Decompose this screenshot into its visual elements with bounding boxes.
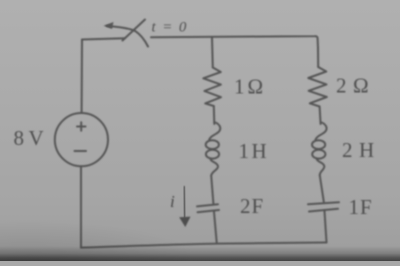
switch SW: arrow head xyxy=(104,22,114,29)
switch SW: curved motion arrow shaft xyxy=(107,26,148,47)
current arrow i: shaft xyxy=(183,186,186,218)
capacitor C2 (1 F): top plate xyxy=(308,202,339,204)
svg-text:1: 1 xyxy=(349,195,360,219)
svg-text:2: 2 xyxy=(336,74,347,98)
inductor L1: loop 2 xyxy=(206,150,219,159)
svg-text:1: 1 xyxy=(234,75,245,99)
node A: junction of middle branch with top wire xyxy=(211,38,214,68)
svg-text:Ω: Ω xyxy=(248,75,264,99)
inductor L2: loop 2 xyxy=(312,150,325,159)
wire L1 to C1 xyxy=(211,176,213,204)
svg-text:2: 2 xyxy=(240,194,251,218)
resistor R2 (2 ohm) zigzag xyxy=(308,67,327,107)
svg-text:8: 8 xyxy=(14,126,25,150)
scan shadow bottom-left corner xyxy=(0,210,190,261)
svg-text:H: H xyxy=(252,139,267,163)
wire: top horizontal from switch to top-right corner xyxy=(151,36,318,48)
svg-text:i: i xyxy=(170,192,175,211)
svg-text:F: F xyxy=(252,194,264,218)
capacitor C2: bottom plate xyxy=(309,209,338,212)
svg-text:Ω: Ω xyxy=(353,74,369,98)
source V1: plus sign xyxy=(77,122,86,130)
resistor R1 (1 ohm) zigzag xyxy=(203,68,221,107)
capacitor C1: bottom plate xyxy=(198,210,220,212)
inductor L1: loop 1 xyxy=(206,140,219,149)
svg-text:2: 2 xyxy=(342,138,353,162)
switch SW (opens at t=0): blade xyxy=(123,20,146,41)
inductor L2 (2 H): entry curl xyxy=(315,122,326,141)
svg-text:1: 1 xyxy=(239,139,250,163)
wire: right branch cap to bottom xyxy=(325,211,327,242)
inductor L2: loop 1 xyxy=(312,140,325,149)
current arrow i: head xyxy=(179,217,190,227)
inductor L1 (1 H): entry curl xyxy=(209,122,220,141)
wire: top-left horizontal from corner to switch xyxy=(82,38,125,39)
svg-text:H: H xyxy=(359,138,374,162)
wire L2 to C2 xyxy=(320,176,324,202)
inductor L2: exit curl xyxy=(317,158,325,175)
svg-text:F: F xyxy=(360,195,372,219)
scan shadow at bottom edge xyxy=(0,246,400,261)
source V1: minus sign xyxy=(75,150,87,152)
inductor L1: exit curl xyxy=(210,158,218,175)
wire: left vertical from source down to bottom wire xyxy=(80,166,82,247)
wire R2 to L2 xyxy=(320,107,321,125)
wire R1 to L1 xyxy=(213,106,216,124)
svg-text:V: V xyxy=(29,126,44,150)
wire: left vertical from top corner down to source xyxy=(81,40,83,114)
wire: right branch down to resistor xyxy=(317,48,319,67)
wire: middle branch junction with bottom wire xyxy=(214,212,217,244)
source V1 (8 V): circle xyxy=(55,113,108,166)
wire: bottom horizontal xyxy=(81,243,327,248)
capacitor C1 (2 F): top plate xyxy=(197,204,218,206)
svg-text:t = 0: t = 0 xyxy=(152,20,188,36)
